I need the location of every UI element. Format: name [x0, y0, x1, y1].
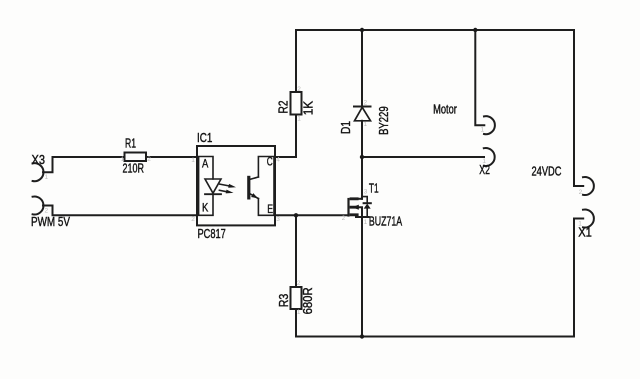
svg-text:Motor: Motor	[433, 103, 457, 117]
svg-text:1: 1	[481, 127, 485, 134]
wire 24VDC riser	[574, 30, 583, 186]
transistor T1 bulk arrow	[352, 205, 359, 210]
wire D1 bottom to drain	[361, 121, 363, 199]
svg-text:1: 1	[297, 309, 301, 316]
connector Motor pin 1	[484, 116, 495, 134]
svg-text:2: 2	[147, 156, 151, 163]
svg-text:PC817: PC817	[198, 227, 226, 241]
wire R1 to IC pin A	[146, 156, 197, 158]
svg-text:BUZ71A: BUZ71A	[369, 215, 403, 229]
transistor T1 body diode triangle	[364, 204, 371, 209]
svg-text:X3: X3	[32, 153, 46, 167]
wire X1 drop	[574, 219, 583, 337]
svg-text:3: 3	[364, 189, 368, 196]
wire R2 top	[295, 30, 297, 92]
IC1 LED cathode bar	[205, 193, 221, 195]
svg-text:1: 1	[482, 158, 486, 165]
transistor T1 bulk link	[359, 207, 363, 217]
wire motor pin drop	[475, 30, 484, 125]
svg-text:D1: D1	[339, 121, 353, 134]
transistor T1 body diode bar	[364, 202, 371, 204]
resistor R3	[291, 287, 302, 309]
connector X3	[33, 163, 44, 181]
transistor T1 channel stubs	[351, 199, 357, 215]
svg-text:K: K	[202, 202, 209, 214]
svg-text:1: 1	[364, 121, 368, 128]
transistor T1 body diode branch	[362, 197, 367, 217]
svg-text:1: 1	[121, 156, 125, 163]
IC1 light arrow head 1	[228, 184, 236, 188]
connector 24VDC pin 2	[583, 177, 594, 195]
svg-text:R2: R2	[277, 100, 291, 113]
wire D1 top	[361, 30, 363, 107]
svg-text:R1: R1	[125, 137, 136, 151]
resistor R1	[125, 153, 147, 162]
svg-text:2: 2	[342, 215, 346, 222]
junction top rail / motor	[473, 28, 477, 32]
svg-text:T1: T1	[369, 182, 379, 196]
svg-text:A: A	[202, 159, 209, 171]
IC1 phototransistor base bar	[247, 177, 250, 198]
IC1 phototransistor collector lead	[250, 177, 258, 179]
diode D1 cathode bar	[354, 106, 371, 108]
IC1 light arrow 1	[220, 184, 230, 186]
IC1 light arrow 2	[219, 190, 227, 192]
resistor R2	[291, 92, 302, 115]
svg-text:3: 3	[276, 216, 280, 223]
svg-text:2: 2	[579, 189, 583, 196]
IC1 phototransistor emitter lead	[250, 194, 258, 199]
wire X2 net	[362, 156, 484, 158]
svg-text:R3: R3	[277, 294, 291, 308]
wire E to gate	[275, 214, 349, 216]
junction bottom rail / source	[360, 334, 364, 338]
svg-text:X2: X2	[479, 163, 490, 177]
transistor T1 source link	[356, 215, 369, 217]
svg-text:2: 2	[191, 216, 195, 223]
svg-text:1: 1	[364, 219, 368, 226]
svg-text:680R: 680R	[301, 287, 315, 314]
svg-text:210R: 210R	[123, 161, 145, 175]
IC1 LED box	[199, 157, 213, 216]
IC1 LED triangle	[205, 179, 221, 193]
svg-text:2: 2	[364, 100, 368, 107]
svg-text:4: 4	[276, 157, 280, 164]
svg-text:BY229: BY229	[377, 106, 391, 135]
connector PWM 5V	[33, 197, 44, 215]
wire R2 bottom to C bend	[275, 115, 296, 158]
junction top rail / D1	[360, 28, 364, 32]
svg-text:E: E	[267, 204, 273, 216]
svg-text:1K: 1K	[302, 100, 316, 115]
junction D1 / X2	[360, 155, 364, 159]
svg-text:IC1: IC1	[197, 131, 212, 145]
transistor T1 drain link	[357, 198, 362, 200]
wire R3 bottom	[295, 309, 297, 337]
IC1 phototransistor box	[258, 157, 274, 216]
junction E / R3	[294, 213, 298, 217]
diode D1 triangle	[355, 107, 371, 121]
svg-text:1: 1	[191, 157, 195, 164]
svg-text:C: C	[267, 157, 273, 169]
svg-text:2: 2	[297, 280, 301, 287]
svg-text:2: 2	[45, 208, 49, 215]
svg-text:PWM 5V: PWM 5V	[31, 215, 71, 229]
wire PWM5V to IC pin K	[43, 206, 197, 216]
svg-text:1: 1	[45, 174, 49, 181]
svg-text:1: 1	[578, 221, 582, 228]
IC1 light arrow head 2	[226, 190, 234, 194]
connector X2	[484, 148, 495, 166]
svg-text:1: 1	[297, 116, 301, 123]
svg-text:24VDC: 24VDC	[532, 165, 562, 179]
op-to IC1 outer box	[197, 146, 275, 225]
wire FET source down	[361, 217, 363, 337]
svg-text:2: 2	[297, 86, 301, 93]
wire R3 top	[295, 215, 297, 287]
wire bottom rail GND	[296, 336, 574, 338]
transistor T1 gate bar	[347, 199, 349, 216]
connector X1	[583, 210, 594, 228]
wire top rail +24V	[296, 29, 574, 31]
wire X3 to R1	[43, 157, 125, 172]
IC1 emitter arrow head	[251, 193, 258, 198]
